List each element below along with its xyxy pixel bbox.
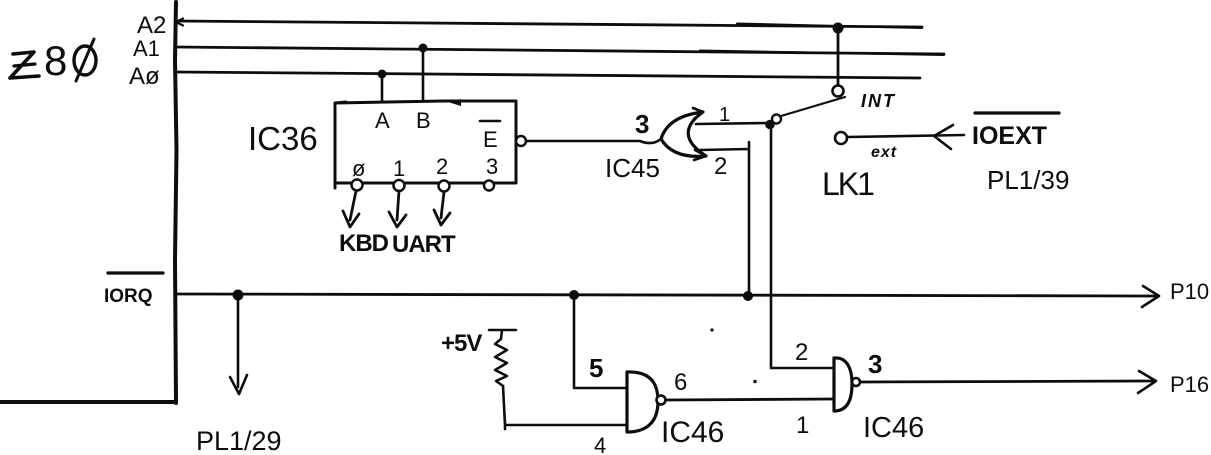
svg-text:2: 2 [714, 153, 727, 180]
svg-text:2: 2 [436, 154, 448, 179]
svg-text:1: 1 [719, 104, 730, 126]
label KBD [339, 230, 389, 257]
label P10 [1170, 279, 1209, 304]
wire resistor to pin 4 [503, 386, 627, 429]
svg-text:A: A [375, 108, 390, 133]
label 5 (IC46 pin) [589, 353, 603, 383]
svg-text:A2: A2 [137, 12, 166, 39]
pin label 3 output [486, 154, 498, 179]
wire LK1 blade to INT [781, 97, 845, 116]
label LK1 [822, 166, 874, 202]
wire EXT to IOEXT [847, 135, 964, 137]
E overline [480, 120, 500, 123]
label 2 (IC45 pin) [714, 153, 727, 180]
label 4 (IC46 pin) [594, 433, 606, 455]
pin 0 bubble [352, 180, 363, 191]
label IC45 [605, 153, 660, 183]
arrow from output 1 to UART [389, 191, 406, 227]
wire pin 6 to pin 1 [666, 399, 834, 400]
label IOEXT [972, 122, 1047, 150]
ink speck 1 [710, 328, 713, 331]
svg-text:IC46: IC46 [661, 416, 724, 449]
label IC46 first [661, 416, 724, 449]
svg-text:IOEXT: IOEXT [972, 122, 1047, 150]
wire arrow to PL1/29 [230, 300, 247, 394]
arrow from output 0 to KBD [343, 191, 359, 227]
label 3 (IC45 output pin) [635, 109, 649, 139]
label ext [871, 144, 897, 161]
ink speck 2 [753, 380, 757, 384]
Z80 Z mid-bar [14, 64, 35, 66]
svg-text:INT: INT [861, 91, 896, 111]
enable bubble on IC36 [516, 136, 526, 146]
wire pin A drop [381, 74, 384, 102]
label Z80 letter Z [10, 52, 39, 78]
label P16 [1170, 372, 1209, 397]
wire A2 start tick [176, 19, 183, 26]
IC45 bottom horn tip [694, 150, 706, 160]
pin label 2 output [436, 154, 448, 179]
INT terminal circle [833, 86, 844, 97]
pin label B [416, 108, 431, 133]
svg-text:ø: ø [352, 156, 365, 181]
wire A2 overdraw [737, 24, 922, 29]
pin 2 bubble [439, 181, 450, 192]
pin label 1 output [393, 156, 405, 181]
decoder IC36 box [335, 101, 516, 188]
arrowhead on EXT wire (pointing left) [934, 125, 953, 149]
label UART [392, 231, 456, 258]
bubble IC46 second output [852, 378, 860, 386]
bubble IC46 first output [657, 396, 666, 405]
svg-text:8: 8 [44, 37, 67, 84]
label 1 (IC45 pin) [719, 104, 730, 126]
svg-text:PL1/39: PL1/39 [987, 165, 1069, 195]
label A0 [129, 63, 160, 90]
svg-text:1: 1 [796, 412, 809, 439]
resistor R pullup [489, 330, 516, 386]
wire IC45 pin 2 [700, 142, 749, 296]
node IORQ/pin5 junction [569, 290, 579, 300]
pin label A [375, 108, 390, 133]
wire IORQ to pin 5 [574, 295, 627, 388]
IORQ overline [108, 271, 163, 274]
svg-text:UART: UART [392, 231, 456, 258]
svg-text:6: 6 [674, 369, 687, 396]
node A2/INT junction [833, 23, 844, 34]
label 2 (IC46 second pin) [795, 339, 808, 366]
svg-text:PL1/29: PL1/29 [196, 426, 282, 455]
wire INT drop from A2 [837, 28, 840, 85]
IOEXT overline [975, 111, 1059, 114]
svg-text:5: 5 [589, 353, 603, 383]
node IORQ/IC45-pin2 junction [743, 291, 753, 301]
svg-text:IC46: IC46 [863, 412, 924, 444]
arrowhead P10 [1142, 286, 1159, 307]
label PL1/29 [196, 426, 282, 455]
svg-text:P10: P10 [1170, 279, 1209, 304]
label PL1/39 [987, 165, 1069, 195]
IC45 top horn tip [693, 108, 703, 119]
label INT [861, 91, 896, 111]
label +5V [441, 330, 482, 357]
svg-text:4: 4 [594, 433, 606, 455]
svg-text:1: 1 [393, 156, 405, 181]
svg-text:+5V: +5V [441, 330, 482, 357]
wire A2 [176, 21, 922, 27]
node A0 to pin A junction [378, 70, 387, 79]
label IC46 second [863, 412, 924, 444]
wire A1 overdraw [700, 51, 944, 56]
svg-text:KBD: KBD [339, 230, 389, 257]
label Z80 digit 8 [44, 37, 67, 84]
label IC36 [248, 120, 318, 157]
EXT terminal circle [835, 132, 847, 144]
svg-text:IC36: IC36 [248, 120, 318, 157]
label A2 [137, 12, 166, 39]
arrow from output 2 [434, 192, 450, 225]
label 6 (IC46 pin) [674, 369, 687, 396]
arrowhead P16 [1138, 371, 1156, 393]
label A1 [133, 36, 160, 61]
svg-text:E: E [483, 127, 498, 152]
label 1 (IC46 second pin) [796, 412, 809, 439]
nand-gate IC46 second [834, 358, 852, 411]
svg-text:B: B [416, 108, 431, 133]
node LK1 common terminal circle [772, 115, 781, 124]
wire A0 [176, 72, 920, 78]
wire IORQ bus to P10 [177, 294, 1157, 296]
svg-text:ext: ext [871, 144, 897, 161]
or-gate IC45 (facing left) [661, 112, 706, 156]
svg-text:A1: A1 [133, 36, 160, 61]
pin label 0 output [352, 156, 365, 181]
pin 3 bubble [484, 181, 494, 191]
node A1 to pin B junction [419, 44, 428, 53]
IC36 top edge pen mark [448, 99, 461, 106]
svg-text:IORQ: IORQ [104, 286, 153, 307]
Z80 zero slash [76, 39, 94, 81]
node LK1 common junction dot [765, 120, 775, 130]
nand-gate IC46 first [627, 372, 658, 432]
wire A1 [176, 47, 944, 54]
wire LK1 junction to pin 2 [771, 123, 834, 368]
wire IC45 pin 1 [696, 123, 768, 124]
svg-text:P16: P16 [1170, 372, 1209, 397]
Z80 CPU block edge [0, 2, 177, 403]
svg-text:3: 3 [868, 349, 882, 379]
wire E to IC45 output [526, 139, 661, 143]
label IORQ [104, 286, 153, 307]
wire pin 3 to P16 [860, 381, 1153, 382]
svg-text:Aø: Aø [129, 63, 160, 90]
svg-text:IC45: IC45 [605, 153, 660, 183]
pin 1 bubble [394, 180, 405, 191]
label 3 (IC46 second pin) [868, 349, 882, 379]
wire pin B drop [422, 48, 425, 101]
svg-text:2: 2 [795, 339, 808, 366]
svg-text:3: 3 [635, 109, 649, 139]
svg-text:LK1: LK1 [822, 166, 874, 202]
pin label E (enable, active low) [483, 127, 498, 152]
node IORQ/PL1-29 junction [233, 290, 244, 301]
svg-text:3: 3 [486, 154, 498, 179]
Z80 slashed zero [74, 46, 96, 75]
